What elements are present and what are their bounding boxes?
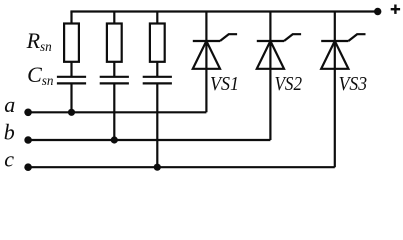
svg-text:VS3: VS3: [339, 73, 368, 95]
junction on line b: [111, 136, 118, 143]
svg-text:VS2: VS2: [275, 73, 303, 95]
wire C1 to line a: [70, 83, 72, 112]
wire C3 to line c: [156, 83, 158, 167]
svg-text:VS1: VS1: [210, 73, 239, 95]
svg-text:Csn: Csn: [27, 62, 54, 88]
label + (positive terminal): [391, 5, 400, 14]
wire rail to R3: [156, 12, 158, 25]
resistor Rsn branch 2: [107, 24, 122, 62]
node b terminal dot: [24, 136, 32, 144]
wire top positive rail: [70, 10, 377, 12]
node a terminal dot: [24, 109, 32, 117]
wire R3 to C3: [156, 62, 158, 77]
resistor Rsn branch 3: [150, 24, 165, 62]
wire line a (phase a): [28, 111, 206, 113]
wire line b (phase b): [28, 139, 270, 141]
svg-text:b: b: [4, 119, 15, 144]
capacitor Csn branch 1: [57, 77, 86, 84]
wire rail to R2: [113, 12, 115, 25]
thyristor VS1: [193, 12, 237, 113]
capacitor Csn branch 3: [143, 77, 172, 84]
svg-text:a: a: [4, 92, 15, 117]
wire line c (phase c): [28, 166, 335, 168]
capacitor Csn branch 2: [100, 77, 129, 84]
thyristor VS3: [321, 12, 365, 168]
junction on line c: [154, 164, 161, 171]
svg-text:Rsn: Rsn: [26, 28, 53, 54]
wire C2 to line b: [113, 83, 115, 140]
node + terminal dot: [374, 8, 381, 15]
wire rail to R1: [70, 12, 72, 25]
wire R2 to C2: [113, 62, 115, 77]
junction on line a: [68, 109, 75, 116]
node c terminal dot: [24, 163, 32, 171]
svg-text:c: c: [4, 146, 14, 171]
wire R1 to C1: [70, 62, 72, 77]
resistor Rsn branch 1: [64, 24, 79, 62]
thyristor VS2: [257, 12, 301, 141]
